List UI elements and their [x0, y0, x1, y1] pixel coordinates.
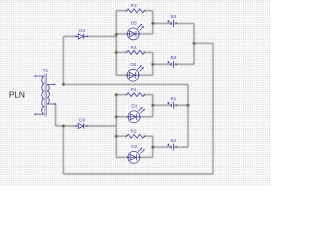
svg-text:R4: R4 — [131, 45, 137, 51]
LED D1 — [127, 107, 144, 123]
junction R2 row on left rail — [115, 135, 118, 138]
resistor R3 — [126, 9, 146, 13]
wire D3 input — [56, 125, 76, 127]
wire R4 row left lead — [116, 51, 126, 53]
wire D4 output to rail — [87, 35, 116, 37]
wire left rail lower — [62, 126, 64, 174]
wire B4 row left — [153, 22, 171, 24]
svg-text:D6: D6 — [130, 62, 136, 68]
svg-text:D1: D1 — [131, 104, 137, 110]
junction at transformer top node — [62, 83, 65, 86]
wire D6 row right — [139, 74, 153, 76]
diode D4 — [75, 34, 88, 39]
svg-text:R2: R2 — [131, 129, 137, 135]
LED D6 — [126, 66, 143, 82]
junction R1 row on left rail — [115, 93, 118, 96]
wire D6 row left — [116, 74, 127, 76]
wire B1 row left — [153, 104, 171, 106]
wire D1 row right — [140, 116, 153, 118]
wire B4-B3 join rail — [193, 23, 195, 64]
wire D4 input — [63, 35, 75, 37]
wire left drop D4 to transformer — [62, 36, 64, 84]
junction B4-B3 node — [193, 42, 196, 45]
wire B4 row right — [174, 22, 194, 24]
wire R2 row right lead — [144, 135, 152, 137]
resistor R2 — [126, 134, 146, 138]
svg-text:B3: B3 — [170, 55, 176, 61]
svg-text:D4: D4 — [79, 28, 85, 34]
LED D2 — [127, 148, 144, 164]
wire right return rail — [212, 43, 214, 174]
wire D3 output to rail — [87, 125, 116, 127]
wire R4 row right lead — [144, 51, 152, 53]
wire R3 row right lead — [144, 10, 152, 12]
wire node join to right rail — [194, 42, 213, 44]
junction B1 on join rail — [187, 104, 190, 107]
wire B2 row right — [174, 146, 188, 148]
wire B3 row right — [174, 63, 194, 65]
wire block C right rail — [152, 95, 154, 117]
wire R1 row left lead — [116, 94, 126, 96]
wire D2 row right — [140, 156, 153, 158]
wire block A right rail — [152, 11, 154, 34]
svg-text:R3: R3 — [131, 3, 137, 9]
wire R1 row right lead — [144, 94, 152, 96]
diode D3 — [75, 123, 88, 128]
wire transformer bottom drop — [55, 104, 57, 126]
junction D5 row on left rail — [115, 33, 118, 36]
svg-text:PLN: PLN — [9, 90, 25, 100]
junction D1 row on left rail — [115, 115, 118, 118]
junction B2 branch — [151, 146, 154, 149]
battery B3 — [167, 61, 177, 68]
svg-text:D3: D3 — [79, 117, 85, 123]
wire block B right rail — [152, 52, 154, 75]
wire D2 row left — [116, 156, 128, 158]
wire R3 row left lead — [116, 10, 126, 12]
wire top block left rail — [115, 11, 117, 75]
transformer T1 — [34, 74, 55, 117]
battery B2 — [167, 144, 177, 151]
svg-text:B1: B1 — [170, 96, 176, 102]
wire R2 row left lead — [116, 135, 126, 137]
svg-text:B4: B4 — [170, 14, 176, 20]
svg-text:T1: T1 — [43, 68, 49, 74]
wire battery join rail — [187, 84, 189, 147]
wire D5 row left — [116, 33, 127, 35]
LED D5 — [127, 24, 144, 40]
wire B1 row right — [174, 104, 188, 106]
wire D1 row left — [116, 116, 128, 118]
junction B3 branch — [151, 63, 154, 66]
junction B1 branch — [151, 104, 154, 107]
wire bottom block left rail — [115, 95, 117, 158]
wire transformer top terminal run — [63, 83, 188, 85]
svg-text:D5: D5 — [131, 21, 137, 27]
battery B1 — [167, 102, 177, 109]
svg-text:D2: D2 — [131, 144, 137, 150]
wire bottom return — [63, 173, 213, 175]
junction R4 row on left rail — [115, 51, 118, 54]
resistor R1 — [126, 93, 146, 97]
wire B2 row left — [153, 146, 171, 148]
wire block D right rail — [152, 136, 154, 157]
svg-text:R1: R1 — [131, 87, 137, 93]
junction B4 branch — [151, 22, 154, 25]
svg-text:B2: B2 — [170, 138, 176, 144]
resistor R4 — [126, 51, 146, 55]
battery B4 — [167, 20, 177, 27]
junction at transformer bottom node — [62, 125, 65, 128]
wire B3 row left — [153, 63, 171, 65]
wire D5 row right — [139, 33, 153, 35]
